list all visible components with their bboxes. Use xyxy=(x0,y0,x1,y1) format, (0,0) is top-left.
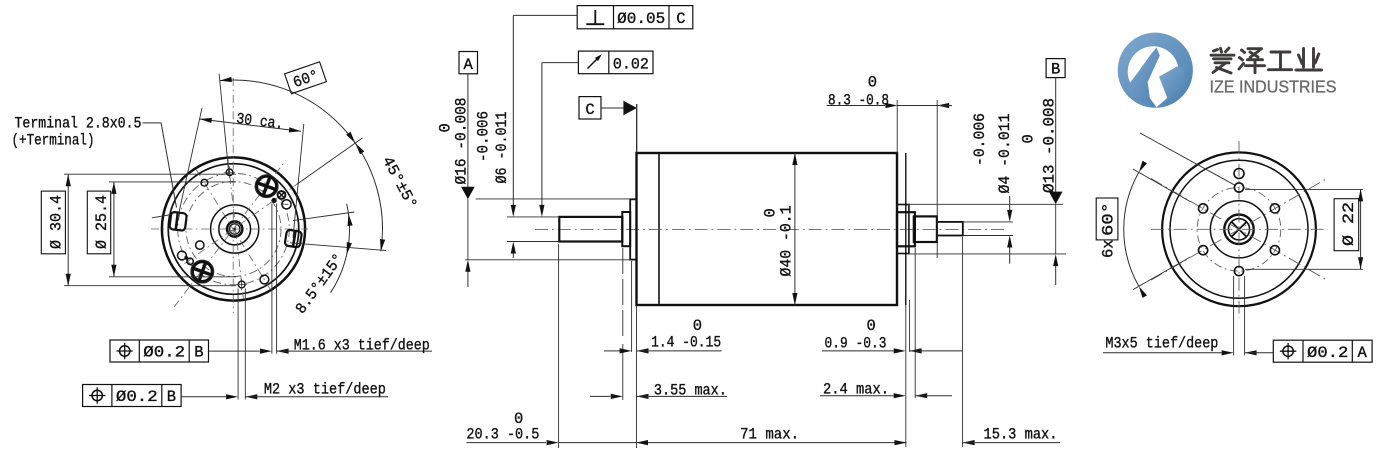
svg-text:15.3 max.: 15.3 max. xyxy=(984,425,1058,443)
datum B box xyxy=(1046,59,1065,78)
dia16 extension lines xyxy=(476,198,630,200)
svg-text:0: 0 xyxy=(762,208,780,217)
IZE logo mark xyxy=(1118,33,1193,108)
M1.6 hole extension lines down xyxy=(271,204,273,354)
45deg extension line (tab axis) xyxy=(290,243,386,251)
hub circle outer xyxy=(211,205,259,253)
dia6 extension lines left xyxy=(507,216,559,218)
ext: rear cap below xyxy=(905,305,907,447)
hole bottom-right xyxy=(260,275,269,284)
FCF perpendicularity dia0.05 C xyxy=(577,6,693,29)
logo chinese characters xyxy=(1211,48,1322,73)
leader to top hole xyxy=(1140,133,1236,186)
rear centerlines xyxy=(1151,228,1328,230)
rear collar xyxy=(897,212,915,246)
front view: motor outer circle xyxy=(162,157,305,300)
diagonal centerline 35deg xyxy=(185,178,306,263)
hole mid-left xyxy=(196,241,204,249)
rear view: rim circle xyxy=(1170,160,1308,298)
hole right of screw xyxy=(282,200,291,209)
FCF position 0.2 A xyxy=(1273,340,1372,362)
svg-text:0: 0 xyxy=(514,410,523,428)
extra hole top xyxy=(1234,169,1244,179)
mounting screw bottom-left xyxy=(191,260,214,283)
svg-text:0: 0 xyxy=(437,123,455,132)
svg-text:Ø6 -0.011: Ø6 -0.011 xyxy=(493,112,511,184)
rear shaft circle xyxy=(1228,219,1249,240)
svg-text:C: C xyxy=(585,101,594,119)
horizontal centerline xyxy=(535,228,1005,230)
svg-text:Ø16 -0.008: Ø16 -0.008 xyxy=(453,98,471,185)
dim 30 ca.: extension lines xyxy=(178,108,203,219)
dia13 extension lines xyxy=(908,203,1063,205)
dia22 dimension line xyxy=(1360,189,1362,269)
ext: body face up to datum C xyxy=(636,104,638,153)
svg-text:71 max.: 71 max. xyxy=(740,426,799,444)
leader FCF to M1.6 holes xyxy=(209,350,260,352)
60deg extension line (95deg radial) xyxy=(219,74,229,175)
mounting screw top-right xyxy=(255,175,278,198)
svg-text:0.9 -0.3: 0.9 -0.3 xyxy=(825,335,887,353)
terminal tab left xyxy=(169,212,187,231)
dim dia 25.4: boxed label xyxy=(87,191,110,254)
dia16 dimension line lower part xyxy=(467,199,469,260)
FCF position 0.2 B (lower, M2) xyxy=(83,385,182,407)
svg-text:Ø0.05: Ø0.05 xyxy=(617,10,665,28)
svg-text:1.4 -0.15: 1.4 -0.15 xyxy=(651,333,721,351)
svg-text:Ø0.2: Ø0.2 xyxy=(1307,344,1348,362)
small hole upper-left xyxy=(201,179,208,186)
M2 hole bottom (with crosshair) xyxy=(238,281,245,288)
svg-text:A: A xyxy=(464,56,474,74)
rear pinion section xyxy=(914,216,937,242)
svg-text:C: C xyxy=(676,10,685,28)
8.5deg arc xyxy=(331,204,350,293)
side view: motor body xyxy=(637,153,898,305)
shaft center dot xyxy=(233,228,236,231)
ext: body right face top xyxy=(896,100,898,153)
svg-text:M3x5 tief/deep: M3x5 tief/deep xyxy=(1105,334,1218,352)
FCF leader to dia6 dim line xyxy=(513,14,577,16)
svg-text:Terminal 2.8x0.5: Terminal 2.8x0.5 xyxy=(15,114,142,132)
svg-text:M1.6 x3 tief/deep: M1.6 x3 tief/deep xyxy=(294,336,430,354)
ext: rear pinion end (8.3) xyxy=(936,100,938,258)
bolt circle dia 22 (dash-dot) xyxy=(1197,188,1281,272)
svg-text:Ø40 -0.1: Ø40 -0.1 xyxy=(778,206,796,277)
8.5deg radial line upper xyxy=(293,212,354,221)
svg-text:0: 0 xyxy=(693,317,702,335)
horizontal centerline xyxy=(151,228,308,230)
datum A stem and triangle xyxy=(467,74,469,188)
rear end-cap line xyxy=(905,153,907,305)
ext: front flange face (1.4) xyxy=(631,261,633,352)
dia4 extension lines xyxy=(964,221,1014,223)
svg-text:-0.006: -0.006 xyxy=(475,111,493,162)
svg-text:Ø 22: Ø 22 xyxy=(1340,202,1358,246)
M1.6 hole dot xyxy=(272,198,277,203)
front shaft (dia 6) xyxy=(559,217,622,242)
datum B stem and triangle xyxy=(1055,78,1057,194)
svg-text:A: A xyxy=(1358,344,1368,362)
vertical centerline xyxy=(232,78,234,313)
stray thin line into left tab xyxy=(152,215,172,218)
svg-text:-0.006: -0.006 xyxy=(971,113,989,166)
rear view: outer circle xyxy=(1162,152,1316,306)
datum A box xyxy=(459,52,478,74)
svg-text:60°: 60° xyxy=(1100,202,1118,236)
shaft boss circle xyxy=(227,221,242,236)
datum C box xyxy=(579,97,601,119)
svg-text:B: B xyxy=(194,344,203,362)
small dot lower-left xyxy=(184,256,188,260)
diagonal centerline 58deg down-right xyxy=(196,169,272,292)
dia13 dim line lower xyxy=(1055,204,1057,254)
front end-cap line xyxy=(658,153,660,305)
dim dia 25.4: dimension line with arrows xyxy=(113,182,115,277)
svg-text:Ø 30.4: Ø 30.4 xyxy=(48,195,66,249)
svg-text:Ø4 -0.011: Ø4 -0.011 xyxy=(996,114,1014,194)
svg-text:M2 x3 tief/deep: M2 x3 tief/deep xyxy=(264,380,386,398)
dim 6x60: arc xyxy=(1124,172,1139,286)
hole lower-left b xyxy=(187,258,193,264)
dia40 dimension xyxy=(794,153,796,305)
terminal tab right xyxy=(285,230,303,248)
M2 hole extension lines down xyxy=(237,289,239,400)
ext: rear shaft end xyxy=(962,237,964,447)
front shaft step ring xyxy=(622,212,630,246)
front view: inner rim circle xyxy=(168,164,299,295)
ext: body left face xyxy=(636,104,638,153)
leader FCF to M2 holes xyxy=(181,396,226,398)
bolt circle dia 30.4 (dash-dot) xyxy=(178,173,290,285)
svg-text:Ø0.2: Ø0.2 xyxy=(116,388,158,406)
svg-text:B: B xyxy=(167,388,176,406)
svg-text:Ø13 -0.008: Ø13 -0.008 xyxy=(1041,98,1059,193)
ext: rear step (0.9/2.4) xyxy=(909,300,911,352)
rear view: middle circle xyxy=(1210,201,1267,258)
near-vertical hole axis centerline xyxy=(228,159,243,298)
svg-text:B: B xyxy=(1051,60,1060,78)
hub circle inner xyxy=(219,213,251,245)
rear shaft (dia 4) xyxy=(937,222,963,236)
dim dia 30.4: dimension line with arrows xyxy=(67,174,69,286)
runout leader xyxy=(542,62,579,64)
front flange dia 16 xyxy=(630,199,636,259)
60deg extension line (35deg radial) xyxy=(297,138,362,184)
FCF circular runout 0.02 xyxy=(578,51,653,74)
datum C leader and triangle xyxy=(601,107,624,109)
dia22 extension lines xyxy=(1245,188,1363,190)
svg-text:0: 0 xyxy=(867,317,876,335)
svg-text:0: 0 xyxy=(868,74,877,92)
shaft slot cross xyxy=(1232,222,1246,236)
dim dia 30.4: extension lines xyxy=(64,173,236,175)
dim 30 ca.: dimension line xyxy=(200,119,301,131)
dia6 dimension line xyxy=(512,15,514,211)
svg-text:0.02: 0.02 xyxy=(613,55,649,73)
ext: front shaft end xyxy=(558,244,560,448)
6x60 radial extension lines xyxy=(1133,169,1190,202)
dim dia 25.4: extension lines xyxy=(109,181,236,183)
M3 hole ext lines down xyxy=(1233,276,1235,355)
FCF position 0.2 B (upper, M1.6) xyxy=(110,340,209,362)
svg-text:Ø 25.4: Ø 25.4 xyxy=(93,195,111,249)
small hole top (with crosshair) xyxy=(226,169,233,176)
6x 60deg label xyxy=(1096,198,1118,240)
svg-text:20.3 -0.5: 20.3 -0.5 xyxy=(466,425,539,443)
bolt circle dia 25.4 (dash-dot) xyxy=(186,182,281,277)
svg-text:(+Terminal): (+Terminal) xyxy=(12,131,95,149)
dia22 boxed label xyxy=(1334,199,1359,251)
dia4 dimension xyxy=(1009,196,1011,216)
shaft circle xyxy=(230,224,240,234)
6 bolt holes M3 xyxy=(1234,183,1243,192)
rear hub circle xyxy=(1224,215,1253,244)
angular dim arc 60deg / 45deg xyxy=(220,80,383,251)
svg-text:8.3 -0.8: 8.3 -0.8 xyxy=(828,91,889,109)
svg-text:0: 0 xyxy=(1020,134,1038,143)
svg-text:6x: 6x xyxy=(1100,239,1118,258)
svg-text:Ø0.2: Ø0.2 xyxy=(143,344,185,362)
svg-text:IZE INDUSTRIES: IZE INDUSTRIES xyxy=(1210,77,1337,97)
small hole with X (35deg axis) xyxy=(278,191,286,199)
rear boss dia 13 xyxy=(897,205,909,254)
terminal leader xyxy=(143,122,162,124)
dim dia 30.4: boxed label xyxy=(41,191,65,254)
hole lower-left a xyxy=(178,251,187,260)
60deg boxed label (tilted) xyxy=(285,62,327,94)
diagonal centerline 53deg through screws xyxy=(174,161,286,307)
ext: front flange left face (3.55) xyxy=(622,248,624,341)
